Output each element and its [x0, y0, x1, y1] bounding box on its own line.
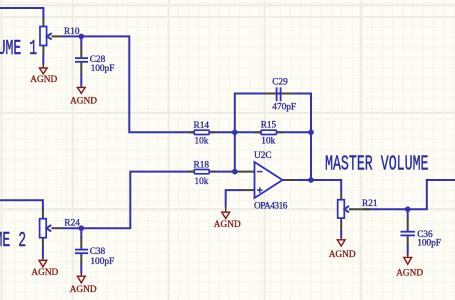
wire op-amp output to R21 top: [295, 180, 341, 192]
pin stubs R15: [255, 131, 284, 133]
wire C28 top lead: [80, 36, 82, 46]
wire R10 bottom to AGND: [42, 54, 44, 65]
svg-text:R18: R18: [194, 160, 210, 170]
svg-text:AGND: AGND: [214, 220, 241, 230]
svg-text:C29: C29: [272, 77, 288, 87]
svg-text:100pF: 100pF: [90, 257, 114, 267]
svg-text:AGND: AGND: [70, 285, 97, 295]
junction node A lower (R18/inverting input): [232, 169, 238, 175]
resistor R15: [261, 130, 277, 134]
pin stub op-amp non-inverting input: [242, 189, 255, 191]
junction node R15/C29 right: [308, 130, 314, 136]
wire R10 wiper to node, down to R14 row: [62, 36, 194, 132]
wire node column A (inverting node): [234, 132, 236, 171]
pin stubs pot R21: [340, 192, 342, 232]
resistor R18: [194, 170, 209, 174]
ground AGND pot R10: [39, 64, 47, 74]
junction node R10/C28: [79, 34, 85, 40]
pin stub op-amp inverting input: [237, 171, 254, 173]
pin stubs pot R24: [43, 210, 63, 247]
svg-text:10k: 10k: [195, 137, 209, 147]
potentiometer R10: [40, 27, 52, 46]
svg-text:AGND: AGND: [70, 96, 97, 106]
svg-text:10k: 10k: [261, 137, 275, 147]
wire VOLUME2 input from left edge to pot R24 top: [0, 200, 43, 210]
svg-text:R10: R10: [64, 27, 80, 37]
pin stubs pot R10: [43, 18, 62, 54]
svg-text:R15: R15: [261, 121, 277, 131]
svg-text:R21: R21: [362, 199, 378, 209]
wire R14 to node A: [209, 131, 235, 133]
svg-text:U2C: U2C: [254, 151, 272, 161]
wire VOLUME1 input from left edge to pot R10 top: [0, 8, 43, 19]
svg-text:100pF: 100pF: [91, 64, 115, 74]
ground AGND pot R21: [337, 238, 345, 247]
svg-text:AGND: AGND: [396, 269, 423, 279]
ground AGND pot R24: [39, 258, 47, 267]
pin stubs R18: [188, 171, 216, 173]
wire R15 row: [235, 131, 311, 133]
junction node output: [308, 177, 314, 183]
op-amp U2C: [255, 162, 283, 198]
pin stubs R14: [188, 131, 216, 133]
svg-text:AGND: AGND: [329, 250, 356, 260]
wire C36 bottom to AGND: [407, 245, 409, 255]
svg-text:10k: 10k: [195, 177, 209, 187]
svg-text:OPA4316: OPA4316: [254, 201, 288, 211]
svg-text:C38: C38: [90, 247, 106, 257]
wire C38 bottom to AGND: [80, 264, 82, 274]
resistor R14: [194, 130, 209, 134]
svg-text:AGND: AGND: [31, 268, 58, 278]
ground AGND C38: [77, 273, 85, 283]
svg-text:VOLUME 1: VOLUME 1: [0, 37, 37, 61]
wire feedback loop C29: [235, 94, 311, 181]
junction node R21/C36: [405, 206, 411, 212]
pin stubs C38: [80, 237, 82, 264]
capacitor C28: [75, 58, 88, 62]
ground AGND op-amp: [222, 207, 230, 219]
wire R21 wiper to C36 node and exit right: [363, 180, 455, 209]
junction node A upper (R14/R15/C29): [232, 130, 238, 136]
pin stubs C36: [407, 218, 409, 246]
svg-text:R14: R14: [194, 121, 210, 131]
pin stubs C29: [264, 93, 294, 95]
wire op-amp + input to AGND drop: [226, 190, 243, 207]
junction node R24/C38: [79, 225, 85, 231]
wire R24 wiper to R18 row: [62, 172, 194, 229]
wire R18 to node A: [209, 171, 235, 173]
wire C36 top lead: [407, 209, 409, 218]
ground AGND C28: [77, 86, 85, 93]
wire C28 bottom to AGND: [80, 74, 82, 87]
svg-text:VOLUME 2: VOLUME 2: [0, 229, 26, 253]
svg-text:MASTER VOLUME: MASTER VOLUME: [325, 153, 429, 177]
ground AGND C36: [404, 255, 412, 264]
capacitor C38: [75, 250, 88, 254]
wire R24 bottom to AGND: [42, 247, 44, 259]
potentiometer R24: [40, 219, 52, 238]
svg-text:AGND: AGND: [30, 75, 57, 85]
svg-text:470pF: 470pF: [272, 103, 296, 113]
potentiometer R21: [338, 200, 349, 218]
capacitor C29: [277, 87, 281, 101]
pin stub op-amp output: [283, 179, 296, 181]
svg-text:100pF: 100pF: [417, 239, 441, 249]
wire C38 top lead: [80, 228, 82, 238]
pin stubs C28: [80, 45, 82, 75]
svg-text:R24: R24: [64, 218, 80, 228]
capacitor C36: [401, 232, 415, 236]
